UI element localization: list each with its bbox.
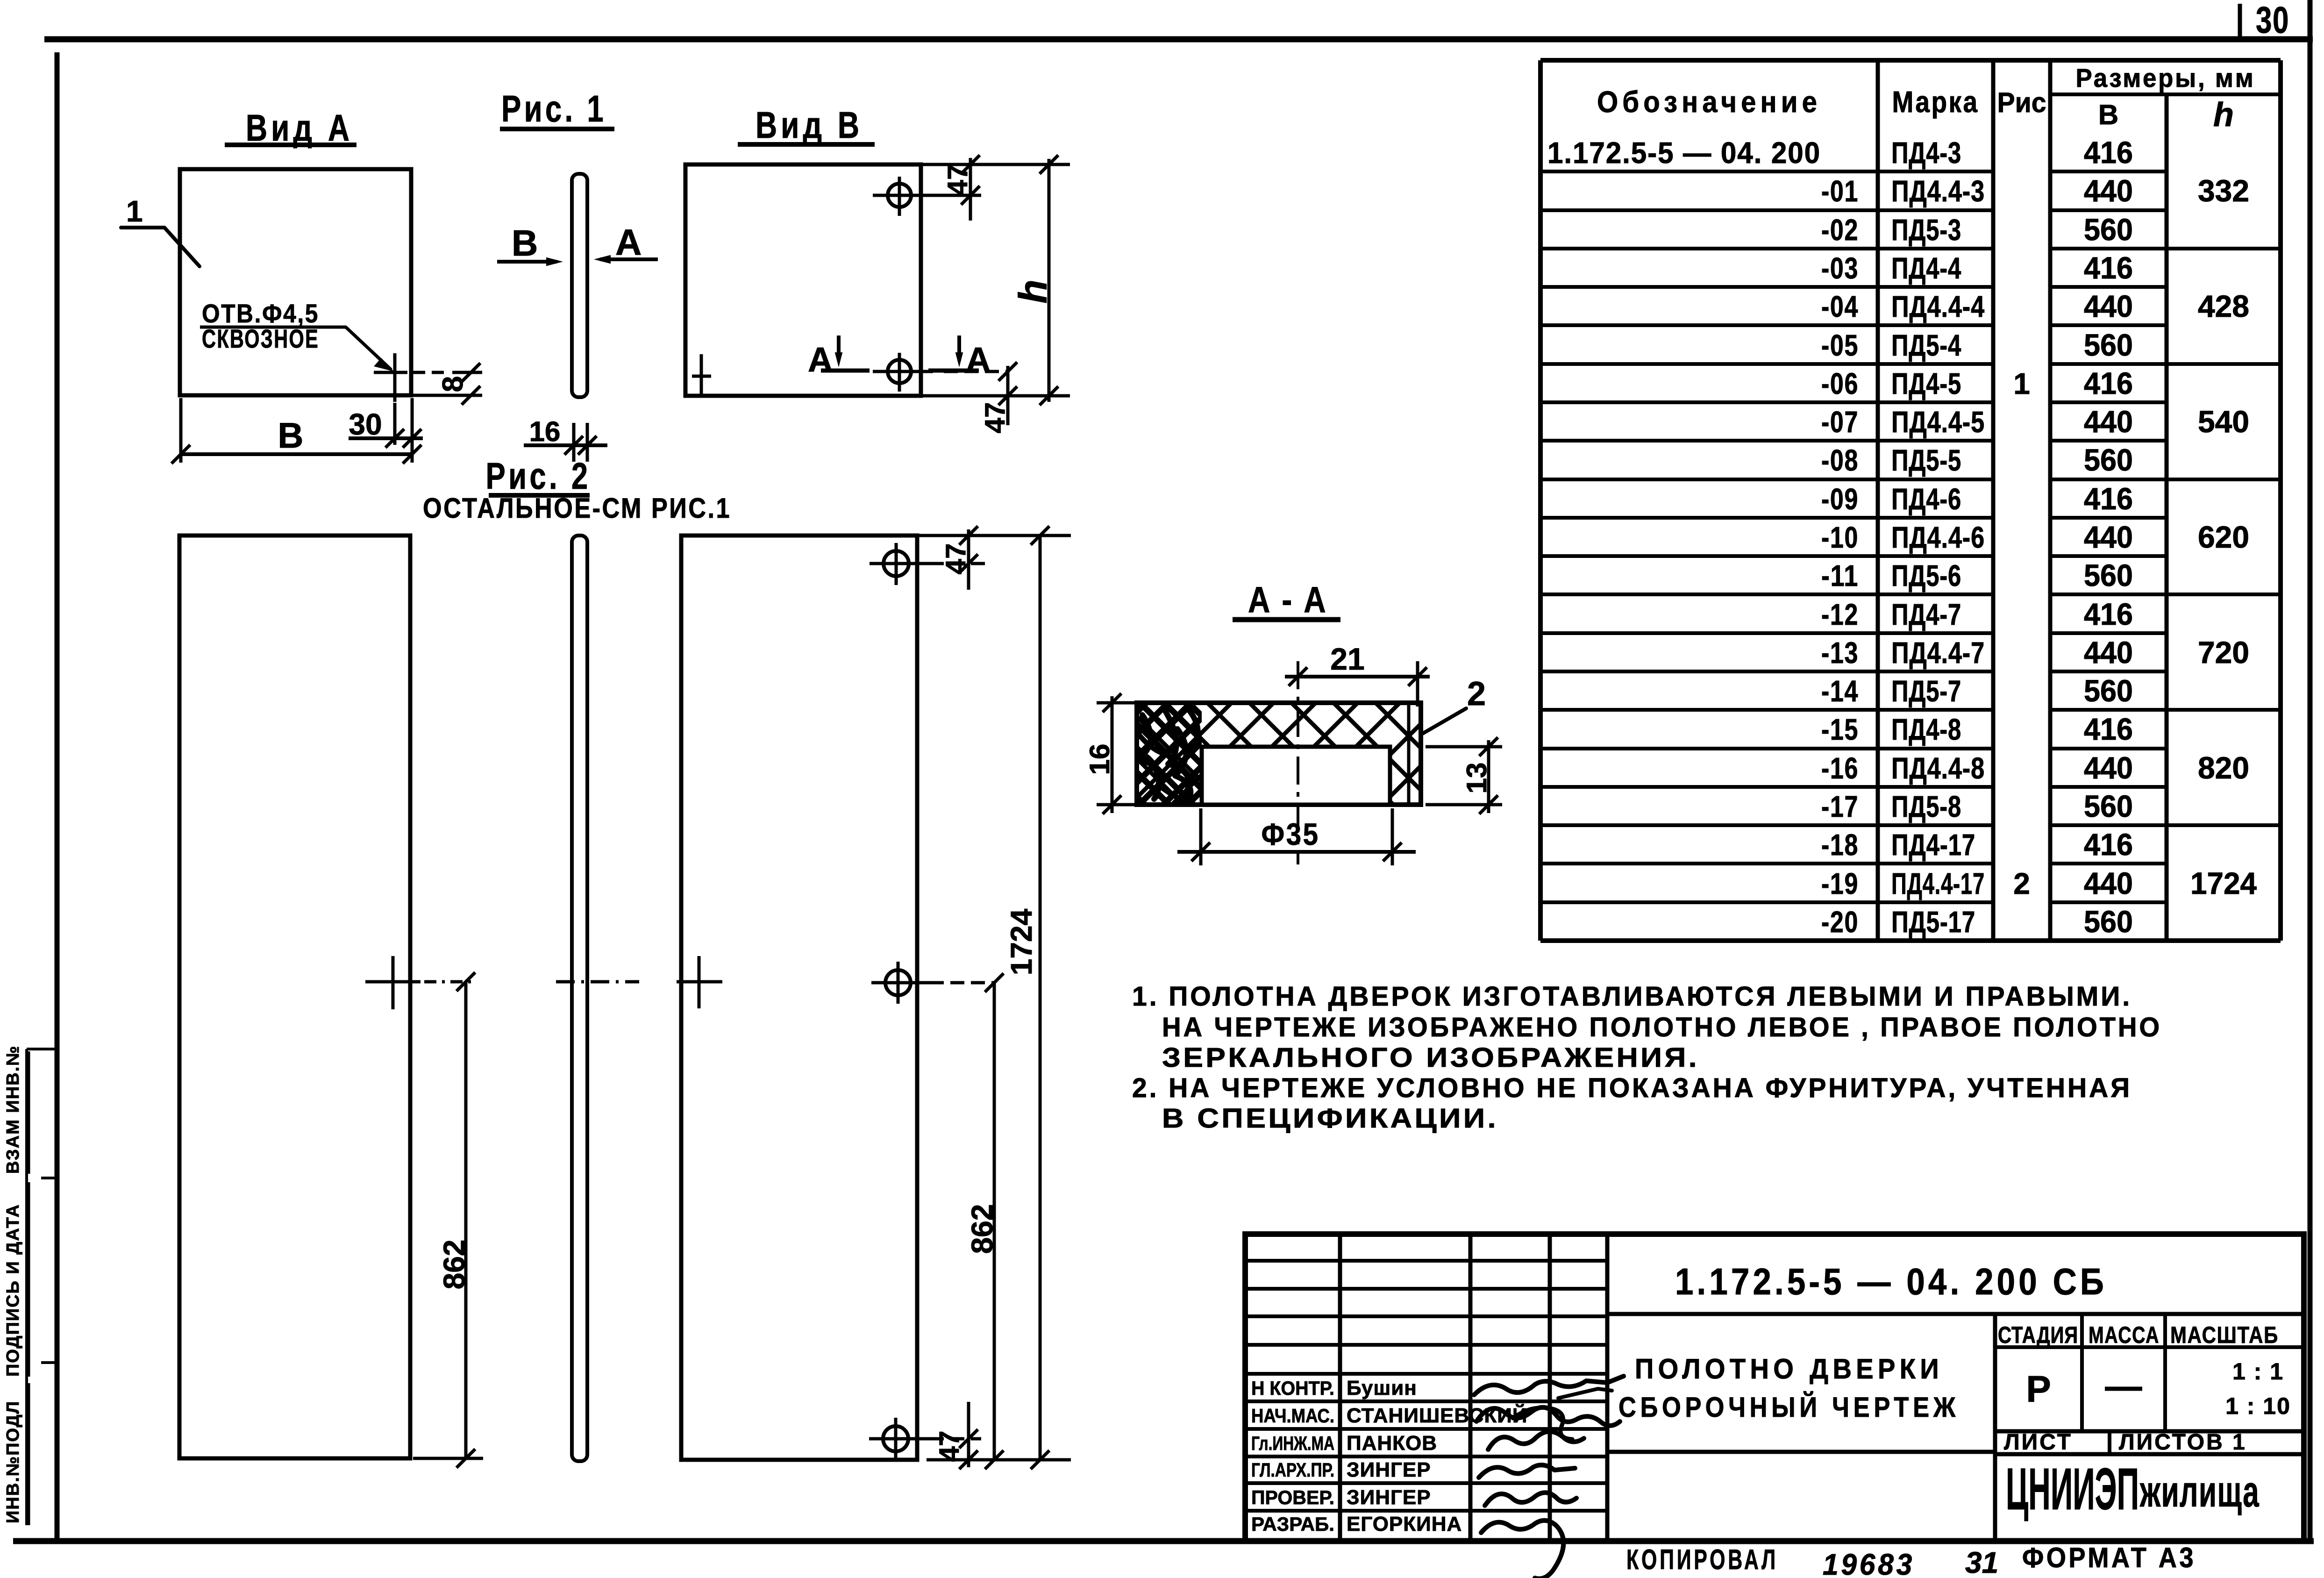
svg-text:ИНВ.№ПОДЛ: ИНВ.№ПОДЛ [3,1400,23,1523]
svg-text:47: 47 [979,402,1011,434]
svg-text:47: 47 [940,543,971,575]
svg-text:8: 8 [437,376,469,392]
svg-text:МАССА: МАССА [2089,1322,2160,1348]
svg-text:1.172.5-5 — 04. 200 СБ: 1.172.5-5 — 04. 200 СБ [1675,1261,2107,1302]
svg-text:862: 862 [437,1240,471,1290]
svg-text:ПД4.4-5: ПД4.4-5 [1891,405,1985,439]
svg-text:ПД5-5: ПД5-5 [1891,443,1961,477]
svg-text:2: 2 [1467,675,1486,713]
svg-text:416: 416 [2084,135,2133,170]
svg-text:-02: -02 [1821,213,1859,247]
svg-text:-14: -14 [1821,674,1859,708]
svg-text:А - А: А - А [1248,579,1327,620]
svg-text:1.172.5-5 — 04. 200: 1.172.5-5 — 04. 200 [1547,136,1821,170]
svg-text:428: 428 [2198,289,2249,323]
svg-text:ВЗАМ ИНВ.№: ВЗАМ ИНВ.№ [3,1045,23,1174]
svg-text:21: 21 [1330,642,1364,676]
svg-text:30: 30 [349,407,382,441]
svg-text:16: 16 [1084,744,1115,775]
svg-text:416: 416 [2084,481,2133,516]
svg-text:-19: -19 [1821,867,1859,900]
svg-text:ПД4.4-17: ПД4.4-17 [1891,867,1985,900]
svg-text:1: 1 [126,194,143,228]
svg-text:ПД5-7: ПД5-7 [1891,674,1961,708]
svg-text:НА ЧЕРТЕЖЕ ИЗОБРАЖЕНО ПОЛОТН: НА ЧЕРТЕЖЕ ИЗОБРАЖЕНО ПОЛОТНО ЛЕВОЕ , ПР… [1162,1012,2162,1042]
svg-text:ПД4-8: ПД4-8 [1891,713,1961,746]
svg-text:540: 540 [2198,404,2249,439]
svg-text:560: 560 [2084,904,2133,939]
svg-text:-10: -10 [1821,521,1859,554]
svg-text:560: 560 [2084,443,2133,477]
svg-text:-09: -09 [1821,482,1859,516]
svg-text:-08: -08 [1821,443,1859,477]
svg-text:В: В [2098,99,2118,130]
svg-text:560: 560 [2084,212,2133,247]
svg-text:440: 440 [2084,520,2133,554]
svg-text:ПД5-8: ПД5-8 [1891,790,1961,823]
svg-text:2. НА ЧЕРТЕЖЕ УСЛОВНО НЕ П: 2. НА ЧЕРТЕЖЕ УСЛОВНО НЕ ПОКАЗАНА ФУРНИТ… [1132,1073,2132,1103]
svg-text:ПД5-4: ПД5-4 [1891,328,1961,362]
svg-text:416: 416 [2084,712,2133,746]
svg-text:ПД4.4-3: ПД4.4-3 [1891,174,1985,208]
svg-text:-11: -11 [1821,559,1859,593]
svg-text:Марка: Марка [1892,85,1979,119]
svg-text:440: 440 [2084,866,2133,900]
svg-text:ПД4-5: ПД4-5 [1891,367,1961,400]
svg-text:1 : 1: 1 : 1 [2232,1358,2284,1385]
svg-text:416: 416 [2084,597,2133,631]
svg-text:ПРОВЕР.: ПРОВЕР. [1251,1486,1334,1508]
svg-text:СТАДИЯ: СТАДИЯ [1998,1322,2078,1348]
svg-text:СКВОЗНОЕ: СКВОЗНОЕ [202,324,319,353]
svg-text:1724: 1724 [1005,908,1038,975]
svg-text:ПД4.4-7: ПД4.4-7 [1891,636,1985,670]
svg-text:-17: -17 [1821,790,1859,823]
svg-text:Р: Р [2026,1368,2051,1410]
svg-text:2: 2 [2013,867,2030,900]
svg-text:416: 416 [2084,366,2133,400]
svg-text:-06: -06 [1821,367,1859,400]
svg-text:ПОЛОТНО ДВЕРКИ: ПОЛОТНО ДВЕРКИ [1635,1353,1943,1385]
svg-text:ПД4-7: ПД4-7 [1891,598,1961,631]
svg-text:ПД4.4-6: ПД4.4-6 [1891,521,1985,554]
svg-text:-04: -04 [1821,290,1859,323]
svg-text:560: 560 [2084,558,2133,593]
svg-text:862: 862 [965,1204,999,1254]
svg-text:СТАНИШЕВСКИЙ: СТАНИШЕВСКИЙ [1347,1403,1528,1427]
svg-text:Рис: Рис [1997,87,2046,118]
svg-text:ЗЕРКАЛЬНОГО ИЗОБРАЖЕНИЯ.: ЗЕРКАЛЬНОГО ИЗОБРАЖЕНИЯ. [1162,1042,1699,1073]
svg-text:h: h [1011,279,1055,303]
svg-text:560: 560 [2084,673,2133,708]
svg-text:-01: -01 [1821,174,1859,208]
svg-text:560: 560 [2084,789,2133,823]
svg-text:1. ПОЛОТНА ДВЕРОК ИЗГОТАВЛИВ: 1. ПОЛОТНА ДВЕРОК ИЗГОТАВЛИВАЮТСЯ ЛЕВЫМИ… [1132,981,2132,1012]
svg-text:ПД4-17: ПД4-17 [1891,828,1975,862]
svg-text:620: 620 [2198,520,2249,554]
svg-text:Рис. 2: Рис. 2 [486,455,591,497]
svg-text:НАЧ.МАС.: НАЧ.МАС. [1251,1405,1334,1427]
svg-text:Рис. 1: Рис. 1 [501,88,606,129]
svg-text:-05: -05 [1821,328,1859,362]
svg-text:ПД5-3: ПД5-3 [1891,213,1961,247]
svg-text:-16: -16 [1821,751,1859,785]
svg-text:47: 47 [934,1431,965,1462]
svg-text:-15: -15 [1821,713,1859,746]
svg-text:КОПИРОВАЛ: КОПИРОВАЛ [1626,1544,1778,1575]
svg-text:416: 416 [2084,250,2133,285]
svg-text:1 : 10: 1 : 10 [2225,1393,2291,1419]
svg-text:ПД5-17: ПД5-17 [1891,905,1975,939]
svg-text:440: 440 [2084,750,2133,785]
svg-text:Ф35: Ф35 [1262,817,1320,851]
svg-text:-12: -12 [1821,598,1859,631]
svg-text:ПД4-3: ПД4-3 [1891,136,1961,170]
svg-text:440: 440 [2084,635,2133,670]
svg-text:ЕГОРКИНА: ЕГОРКИНА [1347,1513,1462,1535]
svg-text:ЗИНГЕР: ЗИНГЕР [1347,1458,1431,1481]
svg-text:А: А [966,340,991,379]
svg-text:А: А [808,340,833,379]
svg-text:А: А [615,221,642,263]
svg-text:ЛИСТОВ 1: ЛИСТОВ 1 [2119,1430,2247,1455]
svg-text:ПД4-4: ПД4-4 [1891,251,1961,285]
svg-text:Бушин: Бушин [1347,1377,1417,1399]
svg-text:В СПЕЦИФИКАЦИИ.: В СПЕЦИФИКАЦИИ. [1162,1103,1498,1134]
svg-text:416: 416 [2084,827,2133,862]
svg-text:-13: -13 [1821,636,1859,670]
svg-text:ЛИСТ: ЛИСТ [2004,1430,2073,1455]
svg-text:560: 560 [2084,328,2133,362]
svg-text:1: 1 [2013,367,2030,400]
svg-text:30: 30 [2256,0,2289,41]
svg-text:1724: 1724 [2190,866,2257,900]
svg-text:Обозначение: Обозначение [1597,85,1821,119]
svg-text:820: 820 [2198,750,2249,785]
svg-text:В: В [512,222,538,264]
svg-text:ПД5-6: ПД5-6 [1891,559,1961,593]
svg-text:Размеры, мм: Размеры, мм [2076,63,2255,93]
svg-text:47: 47 [942,164,973,196]
svg-text:Н КОНТР.: Н КОНТР. [1251,1377,1334,1399]
svg-text:-20: -20 [1821,905,1859,939]
svg-text:РАЗРАБ.: РАЗРАБ. [1251,1513,1334,1535]
svg-text:16: 16 [529,416,561,447]
svg-text:440: 440 [2084,289,2133,323]
svg-text:МАСШТАБ: МАСШТАБ [2170,1322,2279,1348]
svg-text:440: 440 [2084,173,2133,208]
svg-text:440: 440 [2084,404,2133,439]
svg-text:ОСТАЛЬНОЕ-СМ РИС.1: ОСТАЛЬНОЕ-СМ РИС.1 [423,493,731,524]
svg-text:ПАНКОВ: ПАНКОВ [1347,1432,1437,1455]
svg-text:ЗИНГЕР: ЗИНГЕР [1347,1486,1431,1509]
svg-text:ПД4.4-8: ПД4.4-8 [1891,751,1985,785]
svg-text:13: 13 [1461,763,1492,794]
svg-text:жилища: жилища [2139,1467,2260,1516]
svg-text:19683: 19683 [1823,1548,1915,1578]
svg-text:ФОРМАТ А3: ФОРМАТ А3 [2022,1542,2196,1573]
svg-text:-07: -07 [1821,405,1859,439]
svg-text:ПД4.4-4: ПД4.4-4 [1891,290,1985,323]
svg-text:ПД4-6: ПД4-6 [1891,482,1961,516]
svg-text:Вид В: Вид В [756,104,863,146]
svg-text:Вид А: Вид А [246,107,353,149]
svg-text:СБОРОЧНЫЙ ЧЕРТЕЖ: СБОРОЧНЫЙ ЧЕРТЕЖ [1618,1392,1960,1423]
svg-text:h: h [2213,96,2234,134]
svg-text:-03: -03 [1821,251,1859,285]
svg-text:Гл.ИНЖ.МА: Гл.ИНЖ.МА [1251,1432,1334,1454]
svg-text:720: 720 [2198,635,2249,670]
svg-text:ГЛ.АРХ.ПР.: ГЛ.АРХ.ПР. [1251,1459,1334,1481]
svg-text:В: В [278,416,304,456]
svg-text:ЦНИИЭП: ЦНИИЭП [2006,1456,2139,1522]
svg-text:-18: -18 [1821,828,1859,862]
svg-text:31: 31 [1965,1546,1998,1578]
svg-text:ПОДПИСЬ И ДАТА: ПОДПИСЬ И ДАТА [3,1204,23,1377]
svg-text:332: 332 [2198,173,2249,208]
